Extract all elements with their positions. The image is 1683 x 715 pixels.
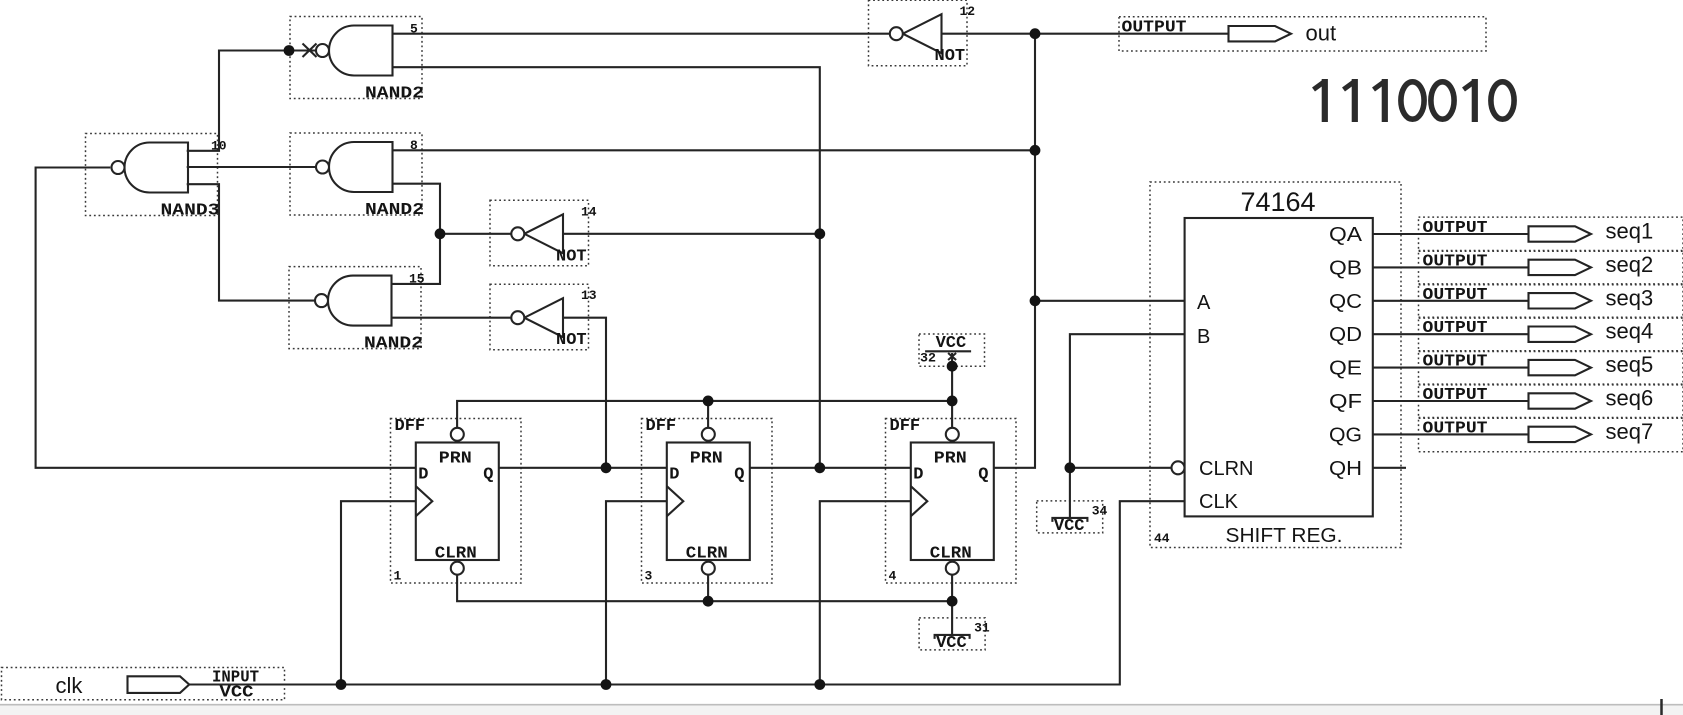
- svg-text:OUTPUT: OUTPUT: [1423, 252, 1488, 271]
- svg-text:NOT: NOT: [556, 247, 587, 266]
- junction clk bus DFF1: [336, 679, 347, 690]
- junction Q1 branch NOT13: [601, 462, 612, 473]
- wire QB output to seq2: [1373, 266, 1529, 268]
- output pin seq5: [1419, 351, 1683, 385]
- svg-text:out: out: [1306, 21, 1337, 46]
- wire NOT13 output to NAND2#15 bottom input: [392, 317, 511, 319]
- VCC symbol #34: [1037, 501, 1108, 536]
- junction clk bus DFF3: [601, 679, 612, 690]
- nand gate NAND2 #8: [290, 133, 424, 220]
- svg-text:seq5: seq5: [1606, 352, 1654, 377]
- svg-text:DFF: DFF: [646, 417, 677, 436]
- wire DFF4 CLRN branch: [951, 574, 953, 601]
- 74164 shift register U44: [1150, 182, 1401, 548]
- wire Q3 vertical to Q3 node: [819, 234, 821, 468]
- wire 74164 B input to VCC net: [1070, 334, 1185, 468]
- svg-text:44: 44: [1154, 531, 1170, 546]
- junction VCC32 stem: [947, 361, 958, 372]
- wire DFF3 CLRN branch: [707, 574, 709, 601]
- wire CLRN bus: [457, 574, 952, 601]
- svg-text:74164: 74164: [1240, 187, 1315, 217]
- svg-text:seq2: seq2: [1606, 252, 1654, 277]
- svg-text:VCC: VCC: [936, 334, 967, 353]
- svg-text:14: 14: [581, 204, 597, 219]
- svg-text:QD: QD: [1329, 324, 1362, 346]
- wire clk bus: [189, 501, 1184, 684]
- wire VCC net down to VCC34: [1069, 468, 1071, 518]
- svg-text:VCC: VCC: [220, 684, 254, 703]
- wire NOT14 input line: [563, 233, 820, 235]
- svg-text:OUTPUT: OUTPUT: [1423, 419, 1488, 438]
- output pin seq7: [1419, 418, 1683, 452]
- svg-text:seq4: seq4: [1606, 319, 1654, 344]
- text label 1110010: [1314, 79, 1515, 122]
- wire QH stub: [1373, 467, 1406, 469]
- wire CLRN bus down to VCC31: [951, 601, 953, 635]
- wire DFF4 clock tap: [820, 501, 911, 684]
- wire NAND2#5 bottom input to Q3 vertical: [393, 67, 820, 234]
- svg-text:OUTPUT: OUTPUT: [1423, 353, 1488, 372]
- D flip-flop DFF 3: [642, 417, 773, 584]
- svg-text:QH: QH: [1329, 458, 1362, 480]
- svg-text:D: D: [913, 466, 923, 485]
- wire NAND3 output to DFF1 D input: [36, 168, 416, 468]
- svg-text:OUTPUT: OUTPUT: [1423, 319, 1488, 338]
- junction Q3 branch NOT14 input: [814, 228, 825, 239]
- svg-text:QB: QB: [1329, 257, 1362, 279]
- connection X mark on NAND2#5 output: [303, 44, 317, 58]
- wire QE output to seq5: [1373, 367, 1529, 369]
- D flip-flop DFF 4: [886, 417, 1017, 584]
- svg-text:QG: QG: [1329, 424, 1362, 446]
- output pin seq1: [1419, 217, 1683, 251]
- junction node x440 NOT14 output: [435, 228, 446, 239]
- svg-text:PRN: PRN: [690, 450, 723, 469]
- svg-text:12: 12: [960, 4, 976, 19]
- wire NOT12 output to NAND2#5 top input: [393, 33, 890, 35]
- junction Q3 branch: [814, 462, 825, 473]
- junction out node top: [1030, 28, 1041, 39]
- svg-text:NAND3: NAND3: [161, 202, 220, 221]
- svg-text:NAND2: NAND2: [365, 201, 424, 220]
- svg-text:OUTPUT: OUTPUT: [1423, 219, 1488, 238]
- wire Q3 to DFF4 D input: [750, 467, 911, 469]
- svg-text:seq7: seq7: [1606, 419, 1654, 444]
- svg-text:QC: QC: [1329, 291, 1362, 313]
- svg-text:OUTPUT: OUTPUT: [1122, 19, 1187, 38]
- svg-text:QE: QE: [1329, 358, 1362, 380]
- input pin clk: [2, 668, 285, 703]
- wire NOT14 output to node x440: [440, 233, 511, 235]
- svg-text:D: D: [669, 466, 679, 485]
- svg-text:DFF: DFF: [395, 417, 426, 436]
- nand gate NAND2 #5: [290, 17, 424, 104]
- svg-text:DFF: DFF: [890, 417, 921, 436]
- wire PRN bus: [457, 401, 952, 427]
- svg-text:OUTPUT: OUTPUT: [1423, 286, 1488, 305]
- svg-text:Q: Q: [734, 466, 744, 485]
- wire Q1 to DFF3 D input: [499, 467, 667, 469]
- not gate NOT #13: [490, 284, 597, 350]
- wire NOT12 input stub: [942, 33, 1036, 35]
- svg-text:Q: Q: [978, 466, 988, 485]
- wire QA output to seq1: [1373, 233, 1529, 235]
- svg-text:34: 34: [1092, 503, 1108, 518]
- junction NAND2#5 output at box edge: [284, 45, 295, 56]
- wire DFF3 clock tap: [606, 501, 667, 684]
- output pin out: [1119, 17, 1486, 51]
- wire Q4 up to out node: [994, 34, 1035, 468]
- junction CLRN bus DFF3: [703, 596, 714, 607]
- output pin seq6: [1419, 384, 1683, 418]
- wire NOT13 input to Q1 node: [563, 318, 606, 468]
- page corner tick: [1660, 699, 1663, 715]
- svg-text:1: 1: [394, 569, 402, 584]
- wire QG output to seq7: [1373, 433, 1529, 435]
- D flip-flop DFF 1: [391, 417, 522, 584]
- junction CLRN bus DFF4: [947, 596, 958, 607]
- svg-text:CLRN: CLRN: [1199, 458, 1253, 480]
- svg-text:QF: QF: [1329, 391, 1362, 413]
- nand gate NAND3 #10: [86, 134, 227, 221]
- svg-text:NOT: NOT: [935, 47, 966, 66]
- wire VCC32 stem to DFF4 PRN: [951, 353, 953, 427]
- svg-text:4: 4: [889, 569, 897, 584]
- junction clk bus DFF4: [814, 679, 825, 690]
- svg-text:13: 13: [581, 288, 597, 303]
- not gate NOT #12: [869, 0, 976, 66]
- page boundary line: [0, 706, 1683, 715]
- svg-text:PRN: PRN: [439, 450, 472, 469]
- svg-text:CLRN: CLRN: [435, 545, 477, 564]
- svg-text:SHIFT REG.: SHIFT REG.: [1226, 525, 1343, 547]
- wire QF output to seq6: [1373, 400, 1529, 402]
- wire DFF3 PRN branch: [707, 401, 709, 427]
- svg-text:CLRN: CLRN: [686, 545, 728, 564]
- wire NAND2#8 output to NAND3 middle input: [187, 166, 316, 168]
- wire NAND2#5 output to NAND3 top input: [187, 51, 316, 151]
- junction PRN bus DFF3: [703, 396, 714, 407]
- svg-text:seq1: seq1: [1606, 219, 1654, 244]
- nand gate NAND2 #15: [289, 267, 425, 354]
- svg-text:CLK: CLK: [1199, 491, 1239, 513]
- wire NAND2#8 bottom input stub: [393, 184, 441, 234]
- wire node x440 to NAND2#15 top input: [392, 234, 441, 284]
- svg-text:seq3: seq3: [1606, 285, 1654, 310]
- svg-text:A: A: [1197, 292, 1211, 314]
- junction Q4 branch NAND2#8: [1030, 145, 1041, 156]
- svg-text:B: B: [1197, 326, 1210, 348]
- svg-text:31: 31: [974, 620, 990, 635]
- wire QD output to seq4: [1373, 333, 1529, 335]
- output pin seq2: [1419, 251, 1683, 285]
- junction Q4 branch 74164 A: [1030, 295, 1041, 306]
- junction PRN bus DFF4: [947, 396, 958, 407]
- svg-text:NAND2: NAND2: [364, 335, 423, 354]
- svg-text:PRN: PRN: [934, 450, 967, 469]
- svg-text:VCC: VCC: [936, 634, 967, 653]
- output pin seq4: [1419, 317, 1683, 351]
- svg-text:VCC: VCC: [1054, 517, 1085, 536]
- not gate NOT #14: [490, 200, 597, 266]
- svg-text:CLRN: CLRN: [930, 545, 972, 564]
- svg-text:NOT: NOT: [556, 331, 587, 350]
- wire VCC net to 74164 CLRN: [1070, 467, 1172, 469]
- svg-text:QA: QA: [1329, 224, 1363, 246]
- svg-text:D: D: [418, 466, 428, 485]
- VCC symbol #32: [919, 334, 985, 366]
- wire out node to OUTPUT pin: [1035, 33, 1229, 35]
- wire DFF1 clock tap: [341, 501, 416, 684]
- junction VCC net CLRN: [1065, 462, 1076, 473]
- wire NAND2#15 output to NAND3 bottom input: [187, 184, 316, 300]
- wire QC output to seq3: [1373, 300, 1529, 302]
- svg-text:32: 32: [920, 351, 936, 366]
- svg-text:Q: Q: [483, 466, 493, 485]
- output pin seq3: [1419, 284, 1683, 318]
- svg-text:3: 3: [645, 569, 653, 584]
- VCC symbol #31: [919, 618, 990, 653]
- wire Q4 node to 74164 A input: [1035, 300, 1185, 302]
- svg-text:NAND2: NAND2: [365, 85, 424, 104]
- svg-text:OUTPUT: OUTPUT: [1423, 386, 1488, 405]
- svg-text:clk: clk: [56, 673, 84, 698]
- svg-text:seq6: seq6: [1606, 386, 1654, 411]
- wire NAND2#8 top input to Q4 vertical: [393, 149, 1036, 151]
